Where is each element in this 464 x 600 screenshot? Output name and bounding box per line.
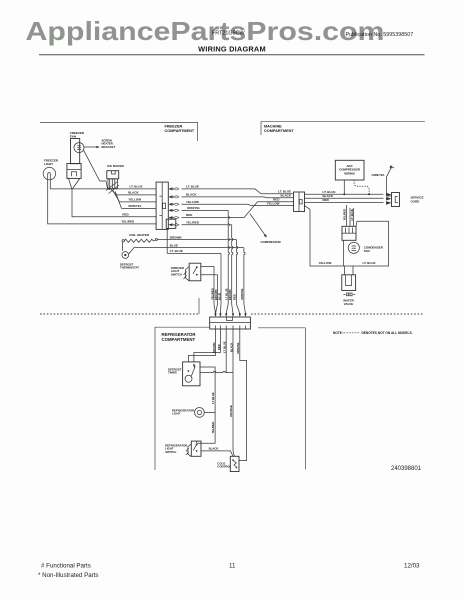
svg-text:BLACK: BLACK: [281, 194, 292, 198]
svg-text:YEL/RED: YEL/RED: [211, 422, 215, 434]
svg-text:LT. BLUE: LT. BLUE: [223, 341, 227, 353]
svg-text:* Non-Illustrated Parts: * Non-Illustrated Parts: [38, 572, 99, 579]
freezer light: [43, 167, 55, 179]
coil heater resistor: [122, 240, 124, 242]
svg-text:BLACK: BLACK: [128, 191, 139, 195]
svg-text:CORD: CORD: [411, 199, 421, 203]
svg-text:BLACK: BLACK: [186, 192, 197, 196]
svg-text:RED: RED: [233, 294, 237, 300]
defrost thermostat: [122, 242, 124, 251]
note text: [333, 331, 413, 335]
rotated wire labels below C3: [212, 341, 240, 354]
yellow wire loop around compressor box: [305, 206, 389, 266]
svg-text:YEL/RED: YEL/RED: [121, 220, 135, 224]
svg-text:ORN/YEL: ORN/YEL: [236, 342, 240, 354]
svg-text:YEL/RED: YEL/RED: [186, 220, 200, 224]
svg-text:11: 11: [229, 563, 236, 570]
svg-text:BROWN: BROWN: [228, 289, 232, 300]
svg-text:LT. BLUE: LT. BLUE: [186, 184, 199, 188]
vertical BROWN: [236, 240, 237, 305]
vertical ORN/YEL: [228, 210, 229, 304]
ice maker connector: [107, 171, 119, 179]
svg-text:YELLOW: YELLOW: [319, 261, 332, 265]
svg-text:BRACKET: BRACKET: [102, 145, 116, 149]
timer to light wire: [200, 367, 215, 412]
wire ORN/YEL r4 turning down: [182, 209, 229, 211]
compressor motor: [348, 242, 359, 253]
ice maker hatch marks: [106, 182, 118, 191]
svg-text:LT. BLUE: LT. BLUE: [170, 249, 183, 253]
switch mounting hatch: [188, 444, 191, 457]
svg-text:BLUE: BLUE: [170, 243, 178, 247]
vertical wire LT. BLUE from C3: [225, 329, 227, 373]
svg-text:VALVE: VALVE: [344, 302, 354, 306]
water valve: [342, 275, 356, 291]
svg-text:LIGHT: LIGHT: [44, 162, 53, 166]
wire YEL/RED r6 turning down: [182, 224, 232, 226]
BLACK wire to cold control: [201, 451, 233, 456]
vertical BLUE: [244, 248, 245, 304]
connector C2 machine: [294, 192, 305, 212]
ground wire with arrow: [387, 167, 392, 196]
vertical wire BROWN from C3: [188, 329, 215, 362]
freezer compartment top border: [40, 122, 198, 141]
vertical wire RED from C3: [194, 329, 221, 362]
cold control: [230, 456, 239, 471]
svg-text:# Functional Parts: # Functional Parts: [41, 563, 91, 570]
crimp splice arrows right of C1: [168, 187, 179, 226]
svg-text:BLACK: BLACK: [229, 343, 233, 352]
vertical YEL/RED: [232, 225, 233, 304]
wire BLUE thermostat: [134, 247, 244, 249]
svg-text:ORN/YEL: ORN/YEL: [187, 206, 201, 210]
svg-text:ORANGE: ORANGE: [229, 405, 233, 417]
ground diagonal from fan to ice maker junction: [84, 150, 108, 189]
connector C1 freezer: [156, 182, 168, 229]
svg-text:CONTROL: CONTROL: [217, 465, 231, 469]
svg-text:RED: RED: [217, 344, 221, 350]
wire YELLOW w3: [120, 201, 157, 203]
vertical switch wire 1: [213, 266, 215, 304]
wire LT. BLUE lower: [167, 252, 221, 254]
svg-text:ORN/YEL: ORN/YEL: [240, 288, 244, 300]
svg-text:YELLOW: YELLOW: [128, 198, 141, 202]
svg-text:YEL/RED: YEL/RED: [210, 288, 214, 300]
svg-text:ICE MAKER: ICE MAKER: [107, 164, 125, 168]
wire BROWN heater: [157, 239, 236, 241]
svg-text:FRT21G5CW: FRT21G5CW: [212, 31, 245, 37]
svg-text:FAN: FAN: [70, 134, 76, 138]
defrost timer: [183, 362, 200, 386]
wire down to switch: [197, 412, 215, 443]
svg-text:BROWN: BROWN: [170, 235, 182, 239]
C1 bottom aux connector: [166, 219, 176, 228]
wire YEL/RED w6: [48, 189, 156, 224]
fan relay box: [67, 164, 81, 179]
svg-text:FAN: FAN: [364, 249, 370, 253]
svg-text:RED: RED: [323, 198, 330, 202]
svg-text:COMPARTMENT: COMPARTMENT: [162, 337, 196, 342]
rotated labels YEL/RED LT. BLUE: [343, 209, 354, 221]
svg-text:BLUE: BLUE: [217, 292, 221, 300]
wire BLACK r2 to machine: [182, 196, 294, 199]
refrigerator light switch: [191, 441, 201, 456]
svg-text:12/03: 12/03: [404, 563, 420, 570]
svg-text:WIRING DIAGRAM: WIRING DIAGRAM: [198, 44, 266, 53]
arrow to heater bracket note: [84, 146, 97, 148]
svg-text:THERMOSTAT: THERMOSTAT: [120, 266, 139, 270]
refrigerator compartment border: [155, 327, 210, 470]
ice maker pins: [109, 179, 111, 189]
svg-text:ORN/YEL: ORN/YEL: [372, 173, 386, 177]
vertical wire BLACK from C3: [233, 329, 234, 456]
svg-text:COMPARTMENT: COMPARTMENT: [165, 129, 195, 133]
wire RED w5: [72, 189, 156, 217]
svg-text:BROWN: BROWN: [212, 342, 216, 353]
svg-text:240398801: 240398801: [391, 466, 422, 472]
svg-text:Publication No. 5995398507: Publication No. 5995398507: [346, 32, 414, 38]
svg-text:LT. BLUE: LT. BLUE: [363, 261, 376, 265]
bundle rotated wire labels: [210, 288, 244, 300]
svg-text:LT. BLUE: LT. BLUE: [211, 392, 215, 404]
wires down to overload: [346, 205, 348, 226]
ADC lead left: [343, 180, 345, 194]
freezer fan motor M: [74, 143, 84, 153]
junction dot at ice maker: [108, 188, 110, 190]
ADC lead ORN/YEL loop: [354, 180, 369, 194]
vertical switch wire 2: [217, 275, 219, 304]
svg-text:YELLOW: YELLOW: [186, 200, 199, 204]
freezer light switch: [189, 263, 201, 281]
svg-text:RED: RED: [122, 213, 129, 217]
svg-text:SWITCH: SWITCH: [171, 272, 182, 276]
wire RED r5 rising to machine connector: [182, 202, 294, 218]
svg-text:COIL HEATER: COIL HEATER: [129, 233, 150, 237]
svg-text:YELLOW: YELLOW: [267, 202, 280, 206]
svg-text:LT. BLUE: LT. BLUE: [130, 185, 143, 189]
svg-text:LT. BLUE: LT. BLUE: [224, 288, 228, 300]
wire LT. BLUE w1: [50, 188, 156, 190]
ADC box: [335, 160, 364, 180]
freezer compartment bottom-right corner: [198, 298, 200, 314]
switch wires to bundle: [201, 265, 214, 267]
svg-text:DENOTES NOT ON ALL MODELS.: DENOTES NOT ON ALL MODELS.: [362, 331, 413, 335]
svg-text:NOTE:: NOTE:: [333, 331, 343, 335]
svg-text:AppliancePartsPros.com: AppliancePartsPros.com: [26, 16, 385, 46]
wire ORN/YEL w4: [122, 207, 157, 209]
svg-text:COMPARTMENT: COMPARTMENT: [264, 129, 294, 133]
refrigerator light: [195, 408, 205, 418]
svg-text:YEL/RED: YEL/RED: [343, 209, 347, 221]
compressor overload relay: [342, 226, 356, 240]
left leg from overload to bottom wire: [343, 240, 345, 266]
svg-text:LIGHT: LIGHT: [172, 412, 181, 416]
freezer fan housing: [71, 139, 80, 164]
vertical LT. BLUE: [220, 253, 222, 304]
svg-text:SWITCH: SWITCH: [165, 450, 176, 454]
svg-text:LT. BLUE: LT. BLUE: [350, 209, 354, 221]
arrow to compressor note: [250, 214, 266, 236]
water valve legs: [344, 266, 346, 275]
service cord: [392, 193, 400, 207]
svg-text:WIRING: WIRING: [344, 171, 356, 175]
svg-text:BROWN: BROWN: [214, 289, 218, 300]
svg-text:COMPRESSOR: COMPRESSOR: [261, 240, 281, 244]
svg-text:TIMER: TIMER: [168, 371, 177, 375]
svg-text:ORN/YEL: ORN/YEL: [128, 204, 142, 208]
wire YELLOW r3 to machine: [182, 204, 294, 205]
water valve terminal marks: [344, 293, 356, 296]
relay leads to wire: [69, 178, 72, 189]
svg-text:BLACK: BLACK: [209, 447, 219, 451]
svg-text:RED: RED: [186, 213, 193, 217]
freezer compartment bottom dashed border: [40, 313, 199, 315]
header rule: [39, 54, 425, 56]
wires right of C2 to service cord: [305, 193, 384, 195]
wire BLACK w2: [117, 194, 157, 196]
crimp V joints into connector C3: [214, 304, 246, 314]
wire LT. BLUE r1 to machine: [182, 189, 294, 194]
machine compartment top border: [261, 122, 425, 135]
LT BLUE drop from aux connector: [166, 228, 168, 253]
vertical wire ORN/YEL from C3: [239, 329, 247, 461]
machine compartment bottom dashed border: [251, 313, 425, 315]
switch mounting hatch: [186, 267, 190, 281]
connector C3 freezer to refrigerator: [210, 317, 251, 329]
